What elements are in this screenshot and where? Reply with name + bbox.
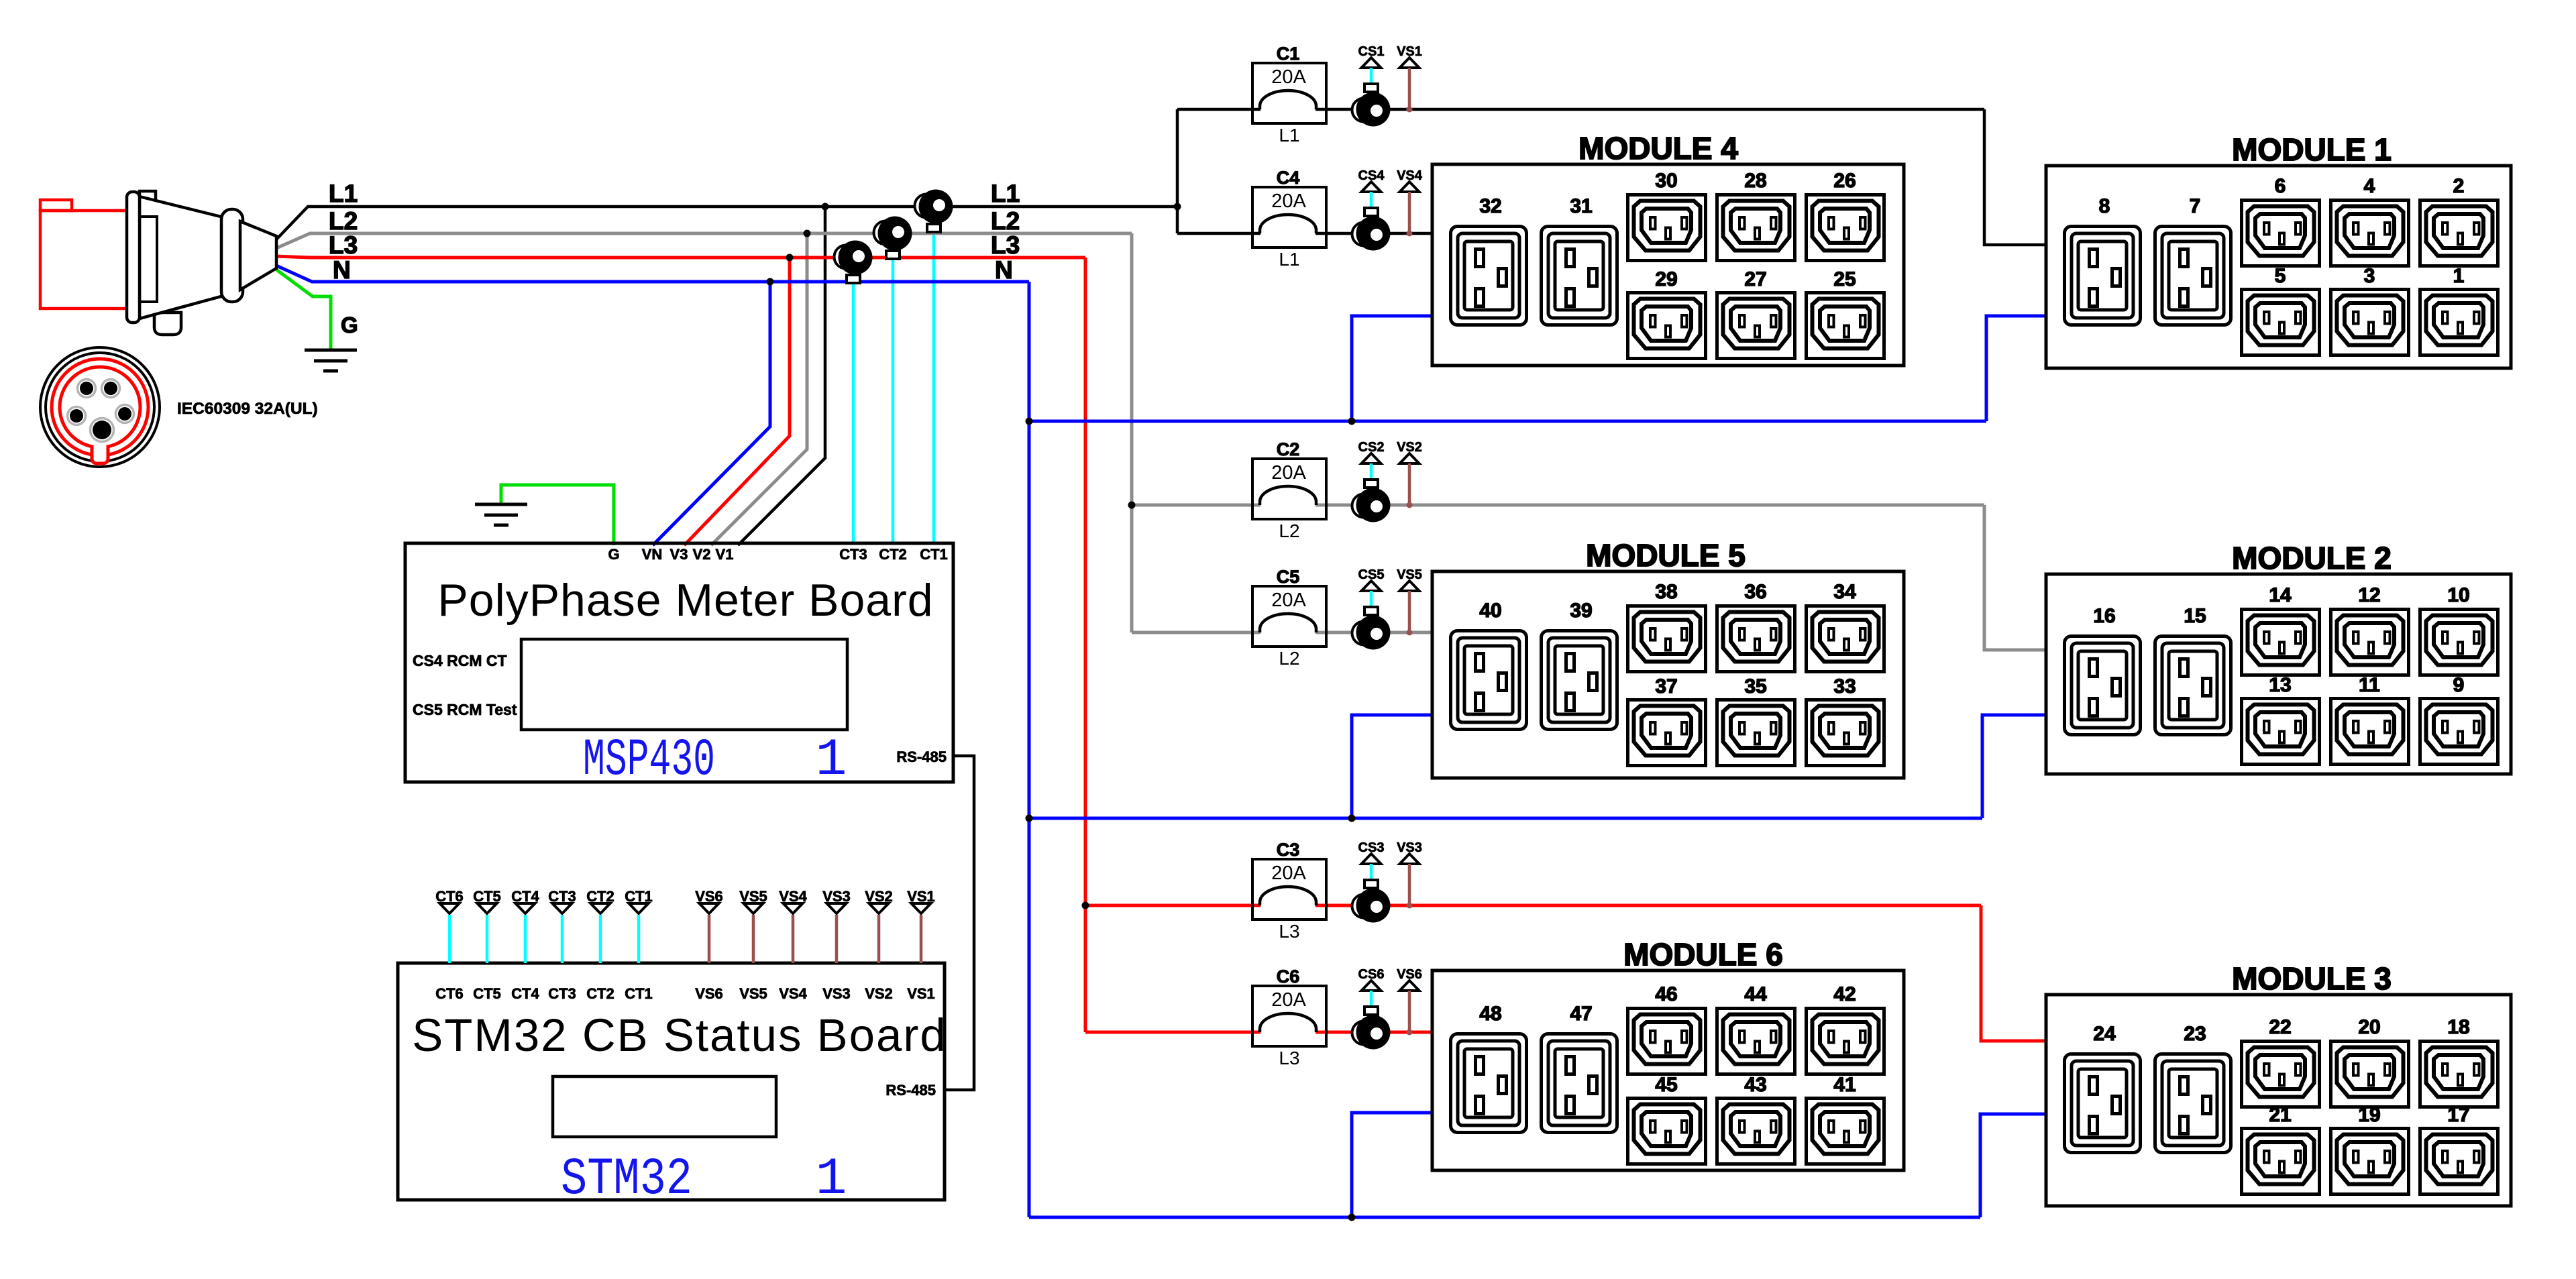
svg-text:24: 24	[2093, 1023, 2116, 1045]
svg-text:G: G	[608, 546, 619, 563]
svg-text:CT1: CT1	[625, 985, 653, 1002]
svg-text:CT2: CT2	[586, 985, 614, 1002]
svg-text:1: 1	[2453, 265, 2465, 287]
svg-text:CT4: CT4	[511, 985, 539, 1002]
svg-text:27: 27	[1744, 268, 1766, 290]
svg-text:STM32 CB Status Board: STM32 CB Status Board	[412, 1009, 947, 1061]
svg-text:42: 42	[1833, 983, 1856, 1005]
svg-text:11: 11	[2359, 674, 2380, 696]
svg-text:25: 25	[1833, 268, 1856, 290]
svg-text:36: 36	[1744, 581, 1766, 603]
svg-text:L1: L1	[1279, 249, 1299, 270]
svg-text:V3: V3	[670, 546, 688, 563]
svg-text:18: 18	[2447, 1016, 2469, 1038]
svg-text:20A: 20A	[1271, 66, 1306, 88]
svg-text:41: 41	[1833, 1074, 1856, 1096]
svg-text:2: 2	[2453, 175, 2465, 197]
svg-text:CS5 RCM Test: CS5 RCM Test	[413, 701, 517, 718]
svg-text:VS3: VS3	[822, 985, 851, 1002]
svg-text:16: 16	[2093, 605, 2115, 627]
svg-text:43: 43	[1744, 1074, 1766, 1096]
svg-text:L3: L3	[1279, 921, 1299, 942]
svg-text:MODULE 2: MODULE 2	[2232, 541, 2392, 575]
svg-text:6: 6	[2275, 175, 2286, 197]
svg-text:VN: VN	[642, 546, 663, 563]
svg-text:MODULE 1: MODULE 1	[2232, 132, 2392, 167]
svg-text:L2: L2	[991, 207, 1020, 235]
svg-text:MODULE 6: MODULE 6	[1623, 937, 1783, 972]
svg-text:CT2: CT2	[879, 546, 907, 563]
svg-text:47: 47	[1570, 1003, 1592, 1025]
svg-text:G: G	[341, 313, 358, 337]
svg-text:10: 10	[2447, 584, 2469, 606]
svg-text:20A: 20A	[1271, 590, 1306, 611]
svg-text:MSP430: MSP430	[583, 731, 715, 790]
svg-text:C1: C1	[1277, 44, 1300, 64]
svg-text:32: 32	[1479, 195, 1501, 217]
svg-text:20A: 20A	[1271, 863, 1306, 884]
svg-text:15: 15	[2184, 605, 2206, 627]
svg-text:39: 39	[1570, 600, 1592, 622]
svg-text:13: 13	[2269, 674, 2291, 696]
svg-text:1: 1	[816, 1150, 847, 1209]
svg-text:1: 1	[816, 731, 847, 790]
svg-text:RS-485: RS-485	[885, 1082, 936, 1099]
svg-text:44: 44	[1744, 983, 1767, 1005]
svg-text:L2: L2	[1279, 520, 1299, 541]
svg-text:C4: C4	[1277, 168, 1300, 188]
svg-text:VS5: VS5	[739, 985, 767, 1002]
svg-text:RS-485: RS-485	[896, 748, 947, 765]
svg-text:MODULE 3: MODULE 3	[2232, 961, 2392, 996]
svg-text:V1: V1	[716, 546, 734, 563]
svg-text:20A: 20A	[1271, 989, 1306, 1011]
svg-text:C6: C6	[1277, 966, 1300, 987]
svg-text:L1: L1	[991, 180, 1020, 207]
svg-text:45: 45	[1655, 1074, 1677, 1096]
svg-text:29: 29	[1655, 268, 1677, 290]
svg-text:28: 28	[1744, 170, 1766, 192]
svg-text:MODULE 4: MODULE 4	[1578, 131, 1738, 166]
svg-text:17: 17	[2447, 1104, 2469, 1126]
svg-text:VS6: VS6	[695, 985, 723, 1002]
svg-text:L3: L3	[329, 231, 358, 259]
svg-text:9: 9	[2453, 674, 2465, 696]
svg-text:L1: L1	[329, 180, 358, 207]
svg-text:CT3: CT3	[548, 985, 576, 1002]
svg-text:22: 22	[2269, 1016, 2291, 1038]
svg-text:MODULE 5: MODULE 5	[1586, 538, 1746, 573]
svg-text:35: 35	[1744, 675, 1766, 698]
svg-text:IEC60309 32A(UL): IEC60309 32A(UL)	[177, 400, 318, 418]
svg-text:20: 20	[2358, 1016, 2380, 1038]
svg-text:21: 21	[2269, 1104, 2291, 1126]
svg-text:PolyPhase Meter Board: PolyPhase Meter Board	[437, 575, 933, 626]
svg-text:N: N	[333, 256, 351, 284]
svg-text:VS4: VS4	[779, 985, 807, 1002]
svg-text:L3: L3	[991, 231, 1020, 259]
svg-text:31: 31	[1570, 195, 1592, 217]
svg-text:CT3: CT3	[839, 546, 867, 563]
svg-text:CT1: CT1	[920, 546, 948, 563]
svg-text:3: 3	[2364, 265, 2375, 287]
svg-text:C3: C3	[1277, 840, 1300, 860]
svg-text:STM32: STM32	[561, 1150, 692, 1209]
svg-text:8: 8	[2099, 195, 2110, 217]
svg-text:VS1: VS1	[907, 985, 935, 1002]
svg-text:C5: C5	[1277, 567, 1300, 587]
svg-text:20A: 20A	[1271, 462, 1306, 484]
svg-text:V2: V2	[693, 546, 711, 563]
svg-text:CT5: CT5	[473, 985, 501, 1002]
svg-text:37: 37	[1655, 675, 1677, 698]
svg-text:VS2: VS2	[865, 985, 893, 1002]
svg-text:20A: 20A	[1271, 190, 1306, 212]
svg-text:33: 33	[1833, 675, 1856, 698]
svg-text:19: 19	[2358, 1104, 2380, 1126]
svg-text:CT6: CT6	[435, 985, 464, 1002]
svg-text:46: 46	[1655, 983, 1677, 1005]
svg-text:14: 14	[2269, 584, 2292, 606]
svg-text:5: 5	[2275, 265, 2286, 287]
svg-text:C2: C2	[1277, 439, 1300, 459]
svg-text:L1: L1	[1279, 125, 1299, 146]
svg-text:34: 34	[1833, 581, 1856, 603]
svg-text:N: N	[995, 256, 1013, 284]
svg-text:23: 23	[2184, 1023, 2206, 1045]
svg-text:CS4 RCM CT: CS4 RCM CT	[413, 652, 507, 669]
svg-text:L2: L2	[329, 207, 358, 235]
svg-text:48: 48	[1479, 1003, 1501, 1025]
svg-text:L2: L2	[1279, 648, 1299, 669]
svg-text:L3: L3	[1279, 1048, 1299, 1068]
svg-text:7: 7	[2190, 195, 2201, 217]
svg-text:26: 26	[1833, 170, 1856, 192]
svg-text:30: 30	[1655, 170, 1677, 192]
svg-text:12: 12	[2358, 584, 2380, 606]
svg-text:40: 40	[1479, 600, 1501, 622]
svg-text:38: 38	[1655, 581, 1677, 603]
svg-text:4: 4	[2364, 175, 2375, 197]
